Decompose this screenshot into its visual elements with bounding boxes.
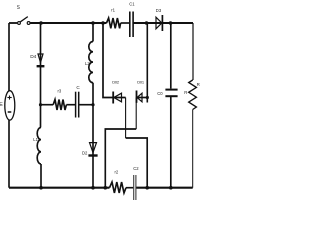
node dot top feed	[101, 21, 105, 25]
wire drop1	[125, 98, 127, 139]
svg-text:D3: D3	[156, 8, 162, 13]
wire bottom rail right	[136, 187, 192, 189]
inductor L1	[37, 127, 41, 164]
wire left rail top	[8, 23, 10, 91]
wire feed down to diode row	[103, 23, 126, 98]
wire top rail to switch	[9, 22, 17, 24]
svg-text:S: S	[17, 5, 20, 11]
wire left rail bottom	[8, 120, 10, 188]
wire bottom rail left	[9, 187, 110, 189]
wire from top node down to D01 anode	[146, 23, 148, 103]
wire jog B	[126, 138, 148, 188]
svg-text:r1: r1	[111, 8, 115, 13]
diode D4	[38, 54, 43, 63]
diode D02	[114, 93, 122, 102]
node dot bottom C0	[169, 186, 173, 190]
capacitor C2	[133, 175, 135, 200]
wire right corner down to R	[192, 23, 194, 80]
resistor r1	[107, 18, 121, 28]
resistor R	[189, 80, 197, 110]
svg-text:E: E	[0, 102, 3, 108]
resistor r2	[110, 182, 127, 193]
node dot bottom L1	[39, 186, 43, 190]
svg-text:r3: r3	[58, 89, 62, 94]
wire drop2 from D01 cathode	[135, 98, 137, 130]
svg-text:C: C	[76, 85, 80, 90]
node dot D01 anode	[146, 96, 149, 99]
wire r1 to C1	[121, 22, 130, 24]
wire r3 to C	[66, 104, 75, 106]
inductor L2	[89, 42, 93, 83]
node dot bottom jogB	[145, 186, 149, 190]
node dot bottom jogA	[104, 186, 108, 190]
wire jog A	[105, 129, 136, 188]
node dot top L2	[91, 21, 95, 25]
svg-text:L2: L2	[85, 61, 90, 66]
capacitor C1	[129, 12, 131, 38]
wire r2 to C2	[126, 187, 133, 189]
svg-text:D01: D01	[137, 79, 145, 84]
wire L1 top lead	[40, 105, 42, 128]
wire D4 branch upper	[40, 23, 42, 105]
svg-text:R0: R0	[197, 82, 200, 87]
svg-text:C1: C1	[129, 2, 135, 7]
svg-text:R: R	[184, 90, 187, 95]
node dot top C0	[169, 21, 173, 25]
switch S	[18, 22, 21, 25]
node dot branch right	[91, 103, 94, 106]
wire C0 top lead	[170, 23, 172, 89]
capacitor C	[75, 92, 77, 118]
source E	[5, 91, 15, 120]
node dot branch left	[39, 103, 42, 106]
node dot before D3	[145, 21, 149, 25]
wire L2 bottom lead	[92, 83, 94, 105]
capacitor C0	[165, 89, 177, 91]
diode D2	[90, 143, 97, 153]
wire top rail mid	[30, 22, 106, 24]
wire C0 bottom lead	[170, 96, 172, 188]
diode D3	[156, 17, 162, 29]
node dot bottom D2	[91, 186, 95, 190]
svg-text:D02: D02	[112, 79, 120, 84]
wire C1 to D3	[133, 22, 193, 24]
svg-text:r2: r2	[115, 169, 119, 174]
svg-text:D2: D2	[82, 150, 88, 155]
wire R bottom lead	[192, 110, 194, 188]
svg-text:C2: C2	[133, 166, 139, 171]
wire branch to r3	[41, 104, 54, 106]
resistor r3	[53, 100, 66, 111]
diode D01	[137, 93, 142, 102]
svg-text:L1: L1	[33, 137, 38, 142]
wire D01 anode	[136, 97, 147, 99]
wire L1 bottom lead	[40, 164, 42, 188]
wire L2 top lead	[92, 23, 94, 42]
svg-text:C0: C0	[157, 91, 163, 96]
node dot top D4	[39, 21, 43, 25]
svg-text:D4: D4	[30, 54, 36, 60]
wire L2 node to D2	[92, 105, 94, 188]
wire C to L2 node	[79, 104, 93, 106]
